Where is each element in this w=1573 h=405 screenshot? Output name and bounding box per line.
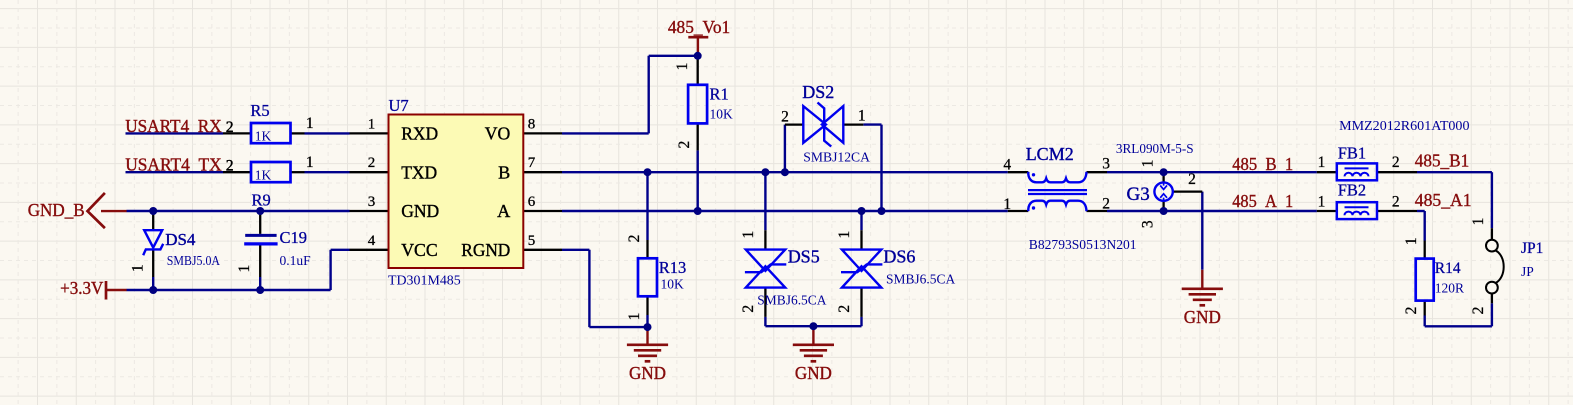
svg-text:G3: G3 (1127, 184, 1150, 205)
svg-text:JP: JP (1521, 264, 1534, 279)
svg-text:DS5: DS5 (788, 247, 820, 267)
svg-text:1: 1 (674, 63, 691, 71)
svg-text:1: 1 (1318, 193, 1326, 210)
svg-text:SMBJ6.5CA: SMBJ6.5CA (757, 293, 826, 308)
svg-text:1: 1 (368, 116, 376, 132)
svg-text:2: 2 (626, 235, 643, 243)
svg-text:2: 2 (740, 305, 757, 313)
svg-text:R13: R13 (659, 258, 687, 277)
svg-text:8: 8 (528, 116, 536, 132)
svg-text:MMZ2012R601AT000: MMZ2012R601AT000 (1339, 118, 1470, 133)
svg-text:2: 2 (1102, 196, 1110, 213)
svg-text:10K: 10K (661, 277, 685, 292)
svg-text:1: 1 (1470, 218, 1487, 226)
svg-text:1: 1 (740, 231, 757, 239)
svg-text:RXD: RXD (401, 124, 438, 144)
svg-text:SMBJ6.5CA: SMBJ6.5CA (886, 272, 955, 287)
svg-text:USART4 TX: USART4 TX (125, 155, 222, 175)
svg-text:3RL090M-5-S: 3RL090M-5-S (1116, 141, 1194, 156)
svg-text:1: 1 (130, 264, 147, 272)
svg-text:TD301M485: TD301M485 (388, 272, 461, 287)
svg-text:RGND: RGND (461, 240, 510, 260)
svg-text:10K: 10K (710, 107, 734, 122)
svg-text:FB1: FB1 (1338, 143, 1366, 162)
svg-text:U7: U7 (389, 96, 409, 115)
svg-text:2: 2 (836, 305, 853, 313)
svg-text:1: 1 (236, 265, 253, 273)
svg-text:6: 6 (528, 194, 536, 210)
svg-text:1: 1 (1140, 160, 1157, 168)
svg-text:3: 3 (1140, 220, 1157, 228)
svg-text:R5: R5 (250, 101, 269, 120)
svg-text:485 A 1: 485 A 1 (1232, 191, 1293, 211)
svg-text:2: 2 (1403, 307, 1420, 315)
svg-text:1: 1 (836, 231, 853, 239)
svg-text:2: 2 (1188, 171, 1196, 188)
svg-text:1K: 1K (255, 168, 272, 183)
svg-text:3: 3 (1102, 156, 1110, 173)
svg-text:GND: GND (401, 201, 439, 221)
svg-text:SMBJ5.0A: SMBJ5.0A (167, 253, 220, 268)
svg-text:1: 1 (858, 108, 866, 125)
svg-text:2: 2 (781, 109, 789, 126)
svg-text:FB2: FB2 (1338, 181, 1366, 200)
svg-text:A: A (497, 201, 510, 221)
svg-text:C19: C19 (280, 228, 308, 247)
svg-text:DS6: DS6 (883, 247, 915, 267)
svg-text:B: B (498, 162, 510, 182)
svg-text:1: 1 (1003, 196, 1011, 213)
svg-text:0.1uF: 0.1uF (280, 253, 312, 268)
svg-text:GND: GND (795, 363, 832, 383)
svg-text:485 B 1: 485 B 1 (1232, 154, 1293, 174)
svg-text:DS2: DS2 (802, 82, 834, 102)
svg-text:2: 2 (676, 141, 693, 149)
svg-text:2: 2 (1392, 154, 1400, 171)
svg-text:SMBJ12CA: SMBJ12CA (803, 150, 870, 165)
svg-text:1: 1 (1403, 237, 1420, 245)
svg-text:GND_B: GND_B (28, 200, 85, 220)
svg-text:2: 2 (368, 155, 376, 171)
svg-text:VO: VO (485, 124, 511, 144)
svg-text:1K: 1K (255, 129, 272, 144)
svg-text:JP1: JP1 (1521, 240, 1543, 257)
svg-text:2: 2 (1392, 193, 1400, 210)
svg-text:4: 4 (1003, 157, 1011, 174)
svg-text:GND: GND (1184, 307, 1221, 327)
svg-text:3: 3 (368, 194, 376, 210)
svg-text:R14: R14 (1435, 260, 1461, 277)
svg-text:R1: R1 (710, 85, 729, 104)
svg-text:R9: R9 (252, 191, 271, 210)
svg-text:TXD: TXD (401, 162, 437, 182)
svg-text:5: 5 (528, 233, 536, 249)
svg-text:4: 4 (368, 233, 376, 249)
svg-text:120R: 120R (1435, 281, 1464, 296)
svg-text:2: 2 (1470, 307, 1487, 315)
svg-text:1: 1 (306, 115, 314, 132)
svg-text:1: 1 (1318, 154, 1326, 171)
svg-text:1: 1 (626, 313, 643, 321)
svg-text:1: 1 (306, 154, 314, 171)
svg-text:LCM2: LCM2 (1026, 144, 1074, 164)
svg-text:B82793S0513N201: B82793S0513N201 (1029, 237, 1137, 252)
svg-text:485_Vo1: 485_Vo1 (668, 17, 730, 37)
svg-text:485_A1: 485_A1 (1415, 190, 1472, 210)
svg-text:GND: GND (629, 363, 666, 383)
svg-text:+3.3V: +3.3V (60, 278, 104, 298)
svg-text:485_B1: 485_B1 (1415, 150, 1469, 170)
svg-text:2: 2 (226, 158, 234, 175)
svg-text:2: 2 (226, 119, 234, 136)
svg-text:DS4: DS4 (165, 230, 196, 249)
svg-text:USART4 RX: USART4 RX (125, 116, 222, 136)
svg-text:VCC: VCC (401, 240, 438, 260)
svg-text:7: 7 (528, 155, 536, 171)
